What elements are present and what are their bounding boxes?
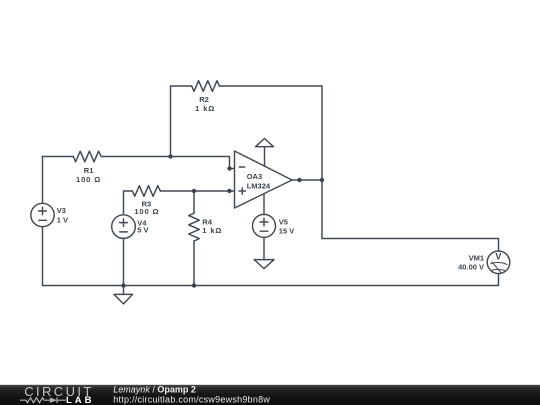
- wire feedback left vertical: [171, 86, 192, 157]
- svg-text:15 V: 15 V: [279, 227, 294, 236]
- wire feedback right vertical: [321, 86, 323, 239]
- wire V4 bottom: [123, 238, 125, 285]
- node inverting input: [227, 166, 231, 170]
- svg-text:V3: V3: [57, 206, 66, 215]
- wire feedback top: [219, 85, 322, 87]
- svg-text:1 kΩ: 1 kΩ: [202, 226, 222, 235]
- footer bar: [0, 385, 540, 405]
- wire R1 left lead: [43, 156, 74, 158]
- svg-text:V: V: [495, 252, 501, 262]
- logo resistor-diode squiggle: [20, 397, 66, 403]
- voltage source V4: [112, 215, 136, 239]
- node R4-bottom junction: [192, 283, 196, 287]
- wire R4 bottom lead: [193, 241, 195, 286]
- voltmeter VM1: [487, 251, 510, 274]
- wire left rail upper: [42, 157, 44, 204]
- wire voltmeter bottom: [498, 274, 500, 286]
- svg-text:V5: V5: [279, 218, 288, 227]
- svg-text:Lemaynk / Opamp 2: Lemaynk / Opamp 2: [113, 385, 196, 395]
- voltage source V5: [253, 214, 276, 237]
- svg-text:100 Ω: 100 Ω: [76, 175, 101, 184]
- voltage source V3: [31, 203, 54, 226]
- node V4-ground junction: [121, 283, 125, 287]
- svg-text:1 kΩ: 1 kΩ: [195, 104, 215, 113]
- node output-feedback junction: [320, 178, 324, 182]
- svg-text:R2: R2: [199, 95, 209, 104]
- wire R4 top lead: [193, 191, 195, 213]
- op-amp OA3: [235, 151, 293, 208]
- svg-text:1 V: 1 V: [57, 216, 68, 225]
- svg-text:LM324: LM324: [247, 182, 271, 191]
- node non-inverting input: [227, 189, 231, 193]
- node R1-R2 junction: [168, 154, 172, 158]
- ground below V5: [254, 260, 274, 269]
- wire bottom rail: [43, 285, 499, 287]
- wire R3 to non-inverting input: [160, 190, 234, 192]
- svg-text:100 Ω: 100 Ω: [134, 207, 159, 216]
- wire op-amp to V5: [263, 194, 265, 214]
- node R3-R4 junction: [192, 189, 196, 193]
- svg-text:5 V: 5 V: [137, 225, 148, 234]
- resistor R2: [192, 81, 220, 92]
- svg-text:LAB: LAB: [66, 395, 95, 405]
- resistor R1: [73, 151, 101, 162]
- wire left rail lower: [42, 227, 44, 286]
- wire V4 to R3: [124, 191, 133, 215]
- svg-text:http://circuitlab.com/csw9ewsh: http://circuitlab.com/csw9ewsh9bn8w: [113, 394, 270, 404]
- svg-text:OA3: OA3: [247, 172, 262, 181]
- wire R1 to inverting input: [101, 157, 234, 169]
- svg-text:40.00 V: 40.00 V: [458, 262, 484, 271]
- node output pin: [297, 178, 301, 182]
- resistor R4: [189, 213, 200, 241]
- wire op-amp output: [292, 179, 322, 181]
- svg-text:R1: R1: [84, 166, 94, 175]
- wire output to voltmeter: [322, 239, 499, 252]
- ground below V4: [123, 286, 125, 295]
- wire V5 to ground: [263, 237, 265, 259]
- svg-text:VM1: VM1: [469, 254, 484, 263]
- vcc arrow above op-amp: [264, 147, 266, 167]
- resistor R3: [132, 186, 160, 197]
